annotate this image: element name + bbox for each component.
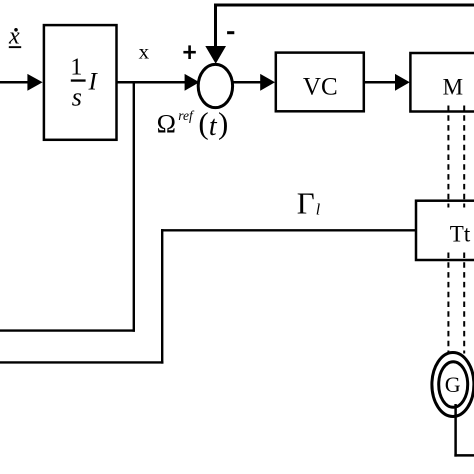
label G inside generator — [445, 372, 461, 397]
summing junction ellipse — [198, 64, 232, 107]
integrator block B1 (1/s I) — [44, 25, 117, 140]
svg-text:(: ( — [198, 106, 208, 141]
block M (motor), right side cut off by image edge — [410, 53, 474, 112]
wire: G output to right edge — [454, 454, 474, 457]
label 1/s I inside integrator — [70, 55, 98, 112]
svg-text:VC: VC — [303, 74, 338, 101]
wire: speed feedback from right edge along top to summer minus input — [205, 5, 474, 64]
label M — [443, 74, 463, 99]
svg-text:Ω: Ω — [157, 110, 176, 139]
label x (state) — [139, 39, 150, 63]
dashed shaft M to Tt, left line — [447, 106, 449, 208]
wire: load torque feedback horizontal from Tt (Gamma_l line) — [161, 229, 416, 231]
svg-text:): ) — [218, 106, 228, 141]
svg-text:x: x — [139, 39, 150, 63]
svg-text:1: 1 — [70, 55, 82, 81]
generator G inner ellipse — [439, 362, 468, 408]
wire: state feedback bottom horizontal to left edge — [0, 329, 135, 331]
wire: G output down — [454, 404, 457, 457]
wire: summer output to VC with arrowhead — [233, 74, 275, 91]
block VC (vector control) — [276, 53, 364, 112]
svg-text:s: s — [72, 83, 82, 112]
svg-text:ref: ref — [178, 108, 195, 123]
wire: input arrow into integrator — [0, 74, 43, 91]
svg-text:Γ: Γ — [297, 186, 315, 221]
generator G outer ellipse — [432, 353, 474, 417]
svg-text:Tt: Tt — [450, 222, 471, 247]
label x-dot (input state derivative, underlined with overdot) — [8, 24, 21, 50]
label minus at summer top input — [227, 31, 234, 34]
label Omega^ref (t) under summer — [157, 106, 229, 142]
label VC — [303, 74, 338, 101]
svg-text:l: l — [316, 202, 321, 219]
dashed shaft M to Tt, right line — [463, 106, 465, 208]
wire: state feedback vertical from node after integrator — [133, 82, 135, 331]
wire: load torque feedback vertical — [161, 229, 163, 364]
wire: VC output to M with arrowhead — [364, 74, 410, 91]
label Gamma_l (load torque) — [297, 186, 321, 221]
svg-text:t: t — [209, 111, 218, 142]
wire: load torque feedback bottom horizontal to left edge — [0, 361, 163, 363]
svg-text:M: M — [443, 74, 463, 99]
dashed shaft Tt to G, left line — [447, 253, 449, 354]
wire: integrator output to summer with arrowhead — [117, 74, 200, 91]
svg-text:x: x — [8, 24, 20, 50]
svg-text:G: G — [445, 372, 461, 397]
dashed shaft Tt to G, right line — [463, 253, 465, 354]
block Tt (transmission), right side cut off by image edge — [416, 201, 474, 260]
label + at summer input — [183, 45, 195, 59]
label Tt — [450, 222, 471, 247]
